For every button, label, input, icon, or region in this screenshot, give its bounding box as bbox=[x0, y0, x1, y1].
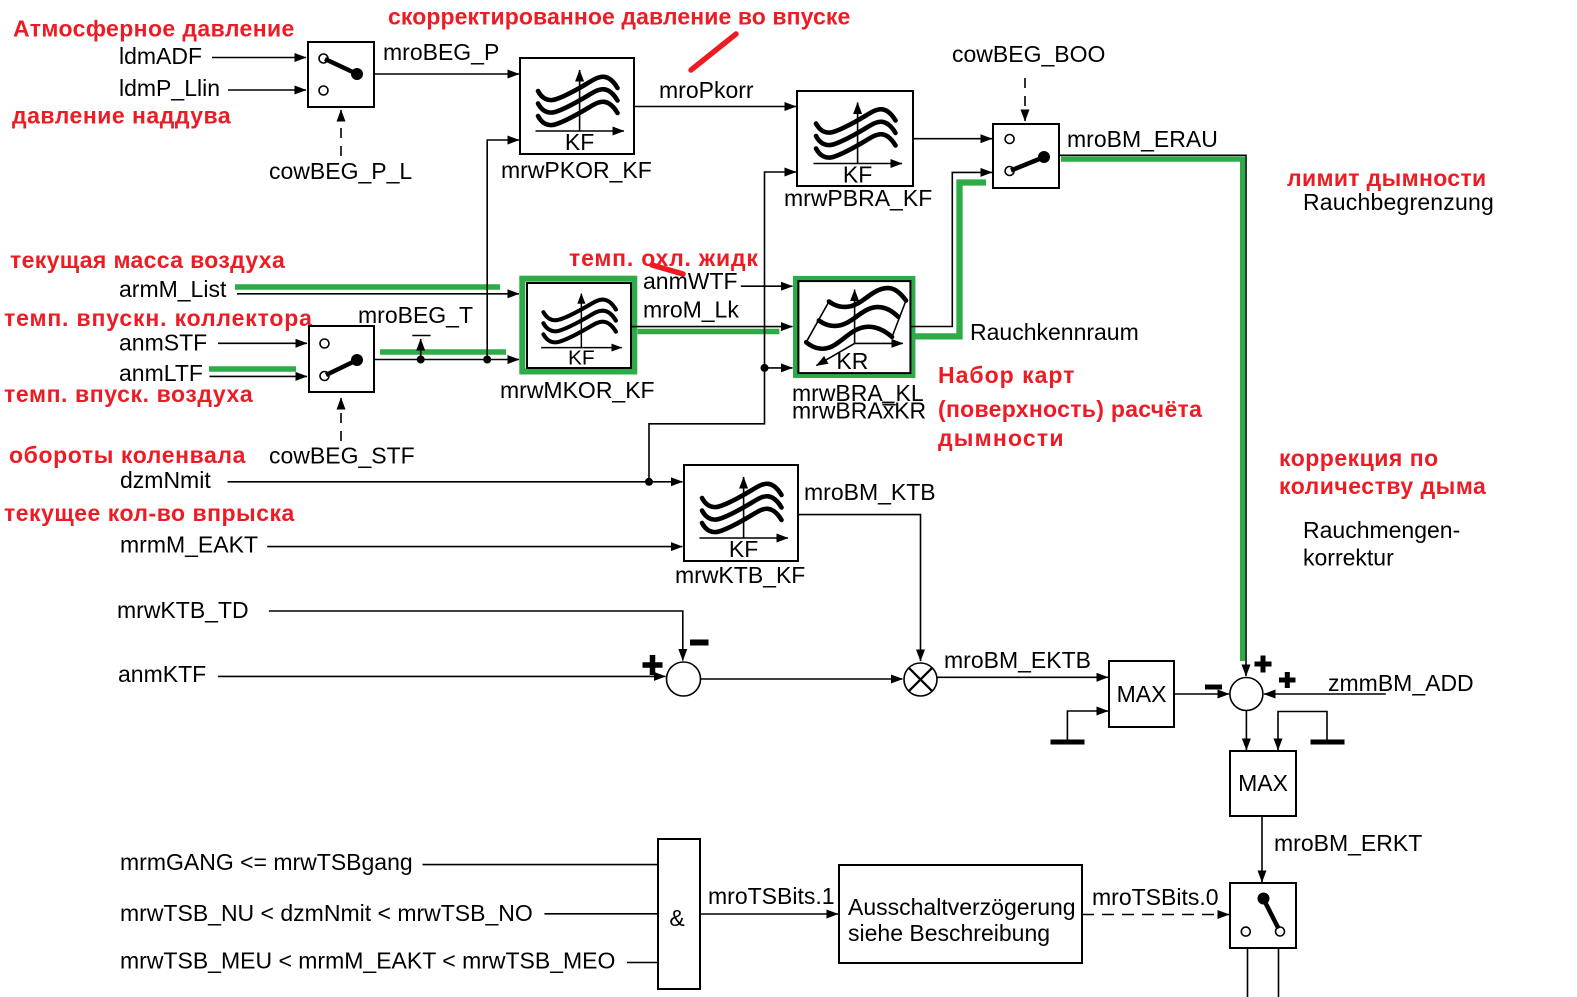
svg-text:mroTSBits.0: mroTSBits.0 bbox=[1092, 884, 1219, 910]
svg-text:anmWTF: anmWTF bbox=[643, 268, 738, 294]
block mrwMKOR_KF (map, highlighted) bbox=[500, 279, 655, 403]
red annotation: crankshaft speed title bbox=[9, 442, 246, 468]
svg-text:mrwBRAxKR: mrwBRAxKR bbox=[792, 398, 926, 424]
svg-text:Rauchkennraum: Rauchkennraum bbox=[970, 319, 1139, 345]
node mrwKTB_TD label bbox=[117, 597, 249, 623]
node mroBEG_P label bbox=[383, 39, 499, 65]
block mrwPBRA_KF (map) bbox=[784, 91, 932, 211]
svg-text:mroBM_KTB: mroBM_KTB bbox=[804, 479, 936, 505]
wire anmWTF to mrwBRA bbox=[741, 285, 793, 287]
wire anmLTF to switch S3 bbox=[210, 375, 308, 377]
label Rauchkennraum bbox=[970, 319, 1139, 345]
wire switch S4 outputs to bottom edge bbox=[1248, 949, 1279, 997]
svg-text:&: & bbox=[669, 905, 684, 931]
node cowBEG_STF label bbox=[269, 443, 415, 469]
label Rauchmengenkorrektur bbox=[1303, 517, 1460, 571]
node mroTSBits.1 label bbox=[708, 883, 835, 909]
wire ldmP_Llin to switch S1 bbox=[228, 89, 306, 91]
node condition 2 label bbox=[120, 900, 533, 926]
red annotation: intake air temp title bbox=[4, 381, 253, 407]
wire mroBEG_T branch up to mrwPKOR_KF second input bbox=[487, 140, 519, 360]
svg-text:темп. впуск. воздуха: темп. впуск. воздуха bbox=[4, 381, 253, 407]
svg-text:cowBEG_STF: cowBEG_STF bbox=[269, 443, 415, 469]
svg-text:ldmADF: ldmADF bbox=[119, 43, 202, 69]
svg-text:давление наддува: давление наддува bbox=[12, 103, 231, 129]
node ldmP_Llin label bbox=[119, 75, 220, 101]
svg-text:anmSTF: anmSTF bbox=[119, 330, 207, 356]
red annotation: correction by smoke amount bbox=[1279, 445, 1486, 499]
svg-text:mroPkorr: mroPkorr bbox=[659, 77, 754, 103]
wire mroBM_ERAU from S2 down to summing point bbox=[1059, 155, 1246, 676]
svg-text:обороты коленвала: обороты коленвала bbox=[9, 442, 246, 468]
wire mrmM_EAKT to mrwKTB_KF bbox=[267, 546, 682, 548]
svg-text:mroBM_ERAU: mroBM_ERAU bbox=[1067, 126, 1218, 152]
node mrmM_EAKT label bbox=[120, 532, 258, 558]
svg-text:mrmGANG <= mrwTSBgang: mrmGANG <= mrwTSBgang bbox=[120, 849, 413, 875]
block Ausschaltverzoegerung (switch-off delay) bbox=[839, 865, 1082, 963]
node condition 3 label bbox=[120, 948, 615, 974]
green highlight mrwBRA output bbox=[913, 183, 986, 337]
svg-text:mroBEG_P: mroBEG_P bbox=[383, 39, 499, 65]
svg-text:mrwMKOR_KF: mrwMKOR_KF bbox=[500, 377, 655, 403]
wire cowBEG_STF dashed control into S3 bbox=[340, 398, 342, 441]
AND gate bbox=[658, 839, 700, 989]
svg-text:dzmNmit: dzmNmit bbox=[120, 467, 211, 493]
junction dzmNmit branch bbox=[645, 478, 653, 486]
svg-text:cowBEG_P_L: cowBEG_P_L bbox=[269, 158, 412, 184]
svg-text:mroBEG_T: mroBEG_T bbox=[358, 302, 473, 328]
wire S1 output mroBEG_P to mrwPKOR_KF bbox=[374, 73, 519, 75]
svg-text:MAX: MAX bbox=[1117, 681, 1167, 707]
svg-text:mrwKTB_KF: mrwKTB_KF bbox=[675, 562, 805, 588]
red pointer line to anmWTF bbox=[652, 265, 683, 274]
block mrwBRA_KL / mrwBRAxKR (3D smoke map, highlighted) bbox=[792, 279, 926, 424]
minus sign at summer 2 left bbox=[1205, 685, 1222, 690]
svg-text:Ausschaltverzögerung: Ausschaltverzögerung bbox=[848, 894, 1076, 920]
red pointer line to mroPkorr bbox=[691, 34, 736, 70]
wire ldmADF to switch S1 bbox=[212, 57, 306, 59]
wire condition 3 to AND bbox=[627, 962, 658, 964]
svg-text:mroTSBits.1: mroTSBits.1 bbox=[708, 883, 835, 909]
svg-text:mroM_Lk: mroM_Lk bbox=[643, 297, 739, 323]
node mroBM_ERAU label bbox=[1067, 126, 1218, 152]
svg-text:cowBEG_BOO: cowBEG_BOO bbox=[952, 41, 1105, 67]
node condition 1 label bbox=[120, 849, 413, 875]
wire anmKTF to summer 1 bbox=[218, 675, 666, 677]
measurement tap symbol mroBEG_T bbox=[412, 336, 430, 360]
wire MAX1 to summer 2 bbox=[1174, 693, 1229, 695]
junction mroBEG_T tap bbox=[417, 356, 425, 364]
node cowBEG_P_L label bbox=[269, 158, 412, 184]
summer 2 bbox=[1230, 656, 1296, 711]
red annotation: boost pressure title bbox=[12, 103, 231, 129]
svg-text:текущая масса воздуха: текущая масса воздуха bbox=[10, 247, 285, 273]
svg-text:Rauchbegrenzung: Rauchbegrenzung bbox=[1303, 189, 1494, 215]
wire armM_List to mrwMKOR_KF bbox=[237, 293, 519, 295]
node mroPkorr label bbox=[659, 77, 754, 103]
green highlight mroBM_ERAU bbox=[1061, 159, 1243, 661]
node anmWTF label bbox=[643, 268, 738, 294]
block MAX1 bbox=[1109, 661, 1174, 727]
svg-text:KR: KR bbox=[836, 348, 868, 374]
wire summer 1 to multiplier bbox=[701, 678, 903, 680]
node ldmADF label bbox=[119, 43, 202, 69]
svg-text:mrwTSB_NU < dzmNmit < mrwTSB_N: mrwTSB_NU < dzmNmit < mrwTSB_NO bbox=[120, 900, 533, 926]
svg-text:(поверхность) расчёта: (поверхность) расчёта bbox=[938, 396, 1202, 422]
red annotation: smoke limit title bbox=[1287, 165, 1487, 191]
svg-text:Атмосферное давление: Атмосферное давление bbox=[13, 16, 295, 42]
svg-text:zmmBM_ADD: zmmBM_ADD bbox=[1328, 670, 1474, 696]
wire mroBM_EKTB to MAX1 bbox=[937, 676, 1108, 678]
wire cowBEG_P_L dashed control into S1 bbox=[340, 110, 342, 156]
wire anmSTF to switch S3 bbox=[218, 342, 307, 344]
node anmSTF label bbox=[119, 330, 207, 356]
red annotation: atmospheric pressure title bbox=[13, 16, 295, 42]
wire mroBEG_T from S3 to mrwMKOR_KF bbox=[374, 359, 519, 361]
green highlight mroM_Lk bbox=[638, 329, 780, 335]
ground symbol 1 bbox=[1051, 711, 1109, 742]
block MAX2 bbox=[1230, 751, 1296, 816]
wire cowBEG_BOO dashed control into S2 bbox=[1024, 78, 1026, 121]
svg-text:MAX: MAX bbox=[1238, 770, 1288, 796]
svg-text:коррекция по: коррекция по bbox=[1279, 445, 1439, 471]
svg-text:количеству дыма: количеству дыма bbox=[1279, 473, 1486, 499]
red annotation: current injection quantity title bbox=[4, 500, 295, 526]
red annotation: map set for smoke calc bbox=[938, 362, 1202, 451]
svg-text:текущее кол-во впрыска: текущее кол-во впрыска bbox=[4, 500, 295, 526]
svg-text:лимит дымности: лимит дымности bbox=[1287, 165, 1487, 191]
node anmKTF label bbox=[118, 661, 206, 687]
svg-text:siehe Beschreibung: siehe Beschreibung bbox=[848, 920, 1050, 946]
summer 1 (anmKTF - mrwKTB_TD) bbox=[643, 643, 709, 697]
red annotation: coolant temp title bbox=[569, 245, 759, 271]
wire mroPkorr to mrwPBRA_KF bbox=[634, 106, 796, 108]
wire MAX2 output mroBM_ERKT to switch S4 bbox=[1261, 816, 1263, 882]
multiplier (smoke qty correction) bbox=[904, 663, 937, 696]
red annotation: current air mass title bbox=[10, 247, 285, 273]
node anmLTF label bbox=[119, 360, 203, 386]
svg-text:mroBM_ERKT: mroBM_ERKT bbox=[1274, 830, 1422, 856]
wire mroBM_KTB to multiplier bbox=[798, 515, 921, 661]
wire mrwKTB_TD to summer 1 bbox=[269, 611, 683, 661]
label Rauchbegrenzung bbox=[1303, 189, 1494, 215]
green highlight mroBEG_T bbox=[380, 349, 506, 355]
green highlight armM_List bbox=[235, 284, 500, 290]
wire condition 2 to AND bbox=[544, 913, 658, 915]
svg-text:темп. впускн. коллектора: темп. впускн. коллектора bbox=[4, 305, 313, 331]
ground symbol 2 bbox=[1278, 712, 1345, 751]
node cowBEG_BOO label bbox=[952, 41, 1105, 67]
junction dzmNmit branch to mrwBRA bbox=[761, 364, 769, 372]
wire mroTSBits.0 dashed to switch S4 bbox=[1082, 914, 1229, 916]
node mroTSBits.0 label bbox=[1092, 884, 1219, 910]
svg-text:Набор карт: Набор карт bbox=[938, 362, 1075, 388]
switch S4 (output select) bbox=[1230, 883, 1296, 948]
red annotation: corrected intake pressure title bbox=[388, 4, 850, 30]
svg-text:mrwPKOR_KF: mrwPKOR_KF bbox=[501, 157, 652, 183]
node zmmBM_ADD label bbox=[1328, 670, 1474, 696]
switch S3 (temperature source select) bbox=[309, 326, 374, 392]
node mroBEG_T label bbox=[358, 302, 473, 328]
svg-text:Rauchmengen-: Rauchmengen- bbox=[1303, 517, 1460, 543]
wire mrwBRA output up to switch S2 second input bbox=[910, 172, 992, 326]
svg-text:mrwKTB_TD: mrwKTB_TD bbox=[117, 597, 249, 623]
wire dzmNmit to mrwKTB_KF bbox=[228, 481, 683, 483]
node mroM_Lk label bbox=[643, 297, 739, 323]
wire condition 1 to AND bbox=[423, 864, 659, 866]
svg-text:ldmP_Llin: ldmP_Llin bbox=[119, 75, 220, 101]
wire mroTSBits.1 AND to delay block bbox=[700, 913, 838, 915]
switch S2 (smoke limit select) bbox=[993, 124, 1059, 188]
node dzmNmit label bbox=[120, 467, 211, 493]
svg-text:armM_List: armM_List bbox=[119, 276, 227, 302]
green highlight anmLTF bbox=[209, 366, 296, 372]
node mroBM_KTB label bbox=[804, 479, 936, 505]
svg-text:дымности: дымности bbox=[938, 425, 1065, 451]
wire dzmNmit branch to mrwBRA third input bbox=[765, 367, 793, 369]
svg-text:mroBM_EKTB: mroBM_EKTB bbox=[944, 647, 1091, 673]
wire summer 2 to MAX2 bbox=[1245, 711, 1247, 751]
node mroBM_EKTB label bbox=[944, 647, 1091, 673]
junction mroBEG_T branch to mrwPKOR_KF bbox=[483, 356, 491, 364]
svg-text:anmKTF: anmKTF bbox=[118, 661, 206, 687]
svg-text:korrektur: korrektur bbox=[1303, 545, 1394, 571]
wire mroM_Lk from mrwMKOR_KF to mrwBRA bbox=[631, 326, 793, 328]
block mrwKTB_KF (map) bbox=[675, 465, 805, 588]
svg-text:mrwTSB_MEU < mrmM_EAKT < mrwTS: mrwTSB_MEU < mrmM_EAKT < mrwTSB_MEO bbox=[120, 948, 615, 974]
node mroBM_ERKT label bbox=[1274, 830, 1422, 856]
svg-text:mrmM_EAKT: mrmM_EAKT bbox=[120, 532, 258, 558]
svg-text:mrwPBRA_KF: mrwPBRA_KF bbox=[784, 185, 932, 211]
svg-text:скорректированное давление во: скорректированное давление во впуске bbox=[388, 4, 850, 30]
wire dzmNmit branch up to mrwPBRA_KF second input bbox=[649, 172, 796, 482]
wire zmmBM_ADD to summer 2 bbox=[1264, 693, 1386, 695]
node armM_List label bbox=[119, 276, 227, 302]
red annotation: intake manifold temp title bbox=[4, 305, 313, 331]
block mrwPKOR_KF (map) bbox=[501, 58, 652, 183]
switch S1 (pressure source select) bbox=[308, 42, 374, 107]
wire mrwPBRA_KF output to switch S2 bbox=[913, 138, 992, 140]
